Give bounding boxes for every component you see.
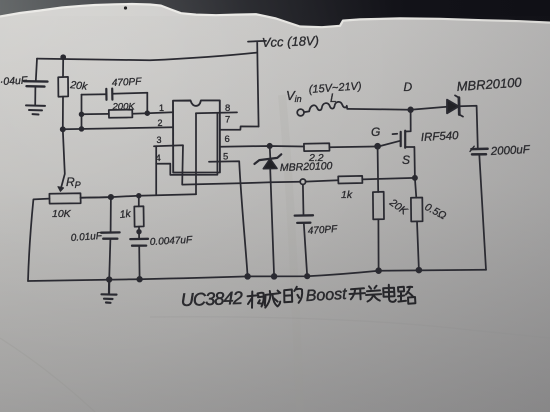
svg-text:G: G <box>371 125 380 139</box>
wire ground rail <box>28 270 486 281</box>
svg-text:2.2: 2.2 <box>308 152 324 164</box>
wire 1k to source <box>362 178 415 180</box>
ground below 0.04uF <box>26 105 45 114</box>
paper speck <box>124 6 127 9</box>
svg-text:2000uF: 2000uF <box>490 144 532 158</box>
svg-text:MBR20100: MBR20100 <box>280 160 333 174</box>
wire diode to output cap <box>459 106 478 149</box>
svg-text:L: L <box>330 91 337 105</box>
resistor 2.2 gate body <box>304 143 330 151</box>
node pin1 <box>145 111 149 115</box>
capacitor 0.01uF plates <box>101 232 119 238</box>
transistor Q1 IRF540 <box>400 132 402 146</box>
svg-text:D: D <box>404 80 413 94</box>
svg-text:5: 5 <box>223 152 228 163</box>
node rail 0.5ohm <box>417 268 422 273</box>
diode MBR20100 output <box>411 107 447 110</box>
node 1k bottom <box>137 230 141 234</box>
capacitor 470PF sense lead <box>303 184 307 276</box>
node top of 20k <box>61 55 65 59</box>
node pot right <box>109 195 113 199</box>
potentiometer Rp wiper wire <box>60 129 64 190</box>
resistor 20K gate leads <box>378 149 379 271</box>
capacitor 0.01uF lead <box>109 197 111 279</box>
node G <box>375 144 380 149</box>
svg-text:2: 2 <box>158 118 163 128</box>
resistor 200K body <box>109 110 133 118</box>
wire pin6 output <box>220 145 304 148</box>
node feedback/200K <box>80 112 84 116</box>
wire pin3 drop vertical <box>155 146 157 195</box>
node pin2/feedback <box>80 127 84 131</box>
wire pot right <box>81 196 111 199</box>
ground symbol main <box>102 280 117 303</box>
node pin6 diode <box>268 144 272 148</box>
wire Vcc to pin7 <box>220 126 259 129</box>
hanzi kai 开 <box>350 288 366 299</box>
svg-text:7: 7 <box>225 115 230 126</box>
svg-text:0.0047uF: 0.0047uF <box>150 235 194 248</box>
wire RC bottom rail to pot <box>81 194 196 198</box>
wire comp right vertical <box>146 93 148 114</box>
capacitor 0.04uF input lead <box>35 59 37 105</box>
input terminal circle <box>297 109 304 116</box>
hanzi de 的 <box>284 287 302 303</box>
resistor 20k body <box>58 77 68 97</box>
svg-text:20k: 20k <box>69 79 89 93</box>
wire pot left to rail <box>28 199 49 281</box>
diode MBR20100 gate clamp <box>269 146 272 158</box>
svg-text:·04uF: ·04uF <box>0 75 28 88</box>
svg-text:6: 6 <box>225 134 230 145</box>
svg-text:3: 3 <box>157 135 162 145</box>
resistor 200K leads <box>82 113 148 114</box>
svg-text:Vcc (18V): Vcc (18V) <box>262 33 320 50</box>
title hanzi strokes <box>248 285 416 308</box>
svg-text:1: 1 <box>159 103 164 113</box>
wire 2.2 to gate node <box>330 146 375 149</box>
hanzi guan 关 <box>366 286 381 302</box>
inductor L coil <box>304 102 347 112</box>
potentiometer Rp arrowhead <box>58 187 64 192</box>
svg-text:1k: 1k <box>119 208 132 221</box>
capacitor 470PF sense plates <box>295 215 313 223</box>
hanzi gou 构 <box>248 292 266 308</box>
node rail 0.01uF <box>107 277 112 282</box>
wire pin5 ground drop <box>209 161 248 276</box>
wire pin8 vref vertical to RC rail <box>195 113 197 194</box>
capacitor 0.04uF plates <box>24 81 48 86</box>
node pin2/20k <box>61 127 65 131</box>
svg-text:IRF540: IRF540 <box>421 130 460 144</box>
resistor 0.5ohm body <box>411 198 423 222</box>
Vcc supply terminal <box>248 41 266 127</box>
hanzi dian 电 <box>383 285 396 302</box>
node 1k timing top <box>137 194 141 198</box>
node CS filter junction <box>300 179 305 184</box>
wire feedback left vertical <box>81 95 83 129</box>
svg-text:8: 8 <box>225 103 230 114</box>
svg-text:0.01uF: 0.01uF <box>70 231 103 244</box>
capacitor 0.0047uF plates <box>130 239 148 246</box>
wire pin3 current sense <box>154 145 300 184</box>
svg-text:4: 4 <box>156 153 161 164</box>
svg-text:S: S <box>402 153 410 167</box>
resistor 1k sense body <box>338 176 362 184</box>
wire CS to 1k <box>306 180 339 181</box>
wire pin8 stub <box>196 111 237 114</box>
potentiometer Rp body <box>49 193 80 203</box>
faint crease under title <box>150 317 550 338</box>
wire inductor to drain node <box>347 108 410 111</box>
svg-text:1k: 1k <box>341 189 353 201</box>
node rail clamp diode <box>272 274 277 279</box>
resistor 1k timing leads <box>138 196 140 239</box>
svg-text:Boost: Boost <box>305 286 347 305</box>
op-amp U1 UC3842 body <box>173 100 220 172</box>
resistor 0.5ohm leads <box>415 178 419 270</box>
node rail 20K <box>376 268 381 273</box>
wire pin2 rail <box>63 127 173 129</box>
node drain D <box>408 107 413 112</box>
svg-text:200K: 200K <box>112 102 136 113</box>
wire gate lead <box>380 134 400 146</box>
resistor 1k timing body <box>134 206 144 227</box>
resistor 20K gate body <box>373 192 384 220</box>
node rail 0.0047uF <box>137 277 142 282</box>
svg-text:470PF: 470PF <box>307 224 338 237</box>
node source junction <box>413 176 417 180</box>
capacitor 2000uF plates <box>471 149 487 155</box>
capacitor 0.0047uF lead <box>138 246 140 279</box>
wire output cap to rail <box>479 155 486 270</box>
capacitor 470PF comp leads <box>82 93 148 95</box>
svg-text:470PF: 470PF <box>112 76 143 89</box>
wire top rail Vcc <box>37 53 257 61</box>
resistor 20k leads <box>62 57 64 129</box>
capacitor 470PF comp plates <box>106 89 112 100</box>
hanzi cheng 成 <box>265 291 280 308</box>
node rail 470PF <box>305 274 309 278</box>
svg-text:UC3842: UC3842 <box>180 288 243 310</box>
wire pin1 <box>147 111 173 114</box>
node rail pin5 <box>245 274 250 279</box>
wire pin4 staircase <box>156 113 217 175</box>
svg-text:10K: 10K <box>52 208 72 220</box>
hanzi lu 路 <box>398 287 415 304</box>
